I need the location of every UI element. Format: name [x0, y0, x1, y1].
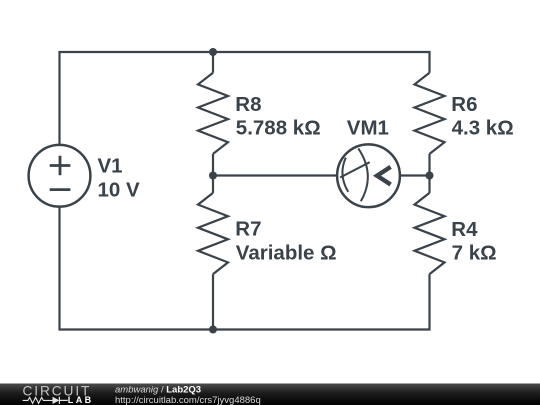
wire: R6 bottom lead through node C to R4 top lead — [428, 154, 430, 193]
wire: R8 bottom lead through node B to R7 top lead — [212, 154, 214, 193]
wire: R7 bottom lead to bottom rail — [212, 274, 214, 329]
CircuitLab logo: resistor squiggle — [23, 397, 53, 403]
resistor R4 — [415, 193, 445, 274]
wire: V1 positive terminal up to top rail across to R6 top — [60, 52, 430, 145]
svg-text:LAB: LAB — [68, 395, 94, 405]
svg-text:V1: V1 — [98, 155, 123, 178]
svg-text:R4: R4 — [451, 218, 478, 241]
svg-text:10 V: 10 V — [98, 179, 140, 202]
resistor R7 — [198, 193, 228, 274]
svg-text:R7: R7 — [235, 218, 261, 241]
svg-text:Variable Ω: Variable Ω — [236, 241, 337, 264]
node C: R6/R4/VM1 junction — [426, 172, 434, 180]
node B: R8/R7/VM1 junction — [209, 172, 217, 180]
svg-text:4.3 kΩ: 4.3 kΩ — [452, 117, 514, 140]
svg-text:7 kΩ: 7 kΩ — [452, 241, 497, 264]
voltmeter VM1 — [337, 144, 400, 207]
svg-text:5.788 kΩ: 5.788 kΩ — [236, 117, 321, 140]
CircuitLab logo: diode symbol — [53, 397, 60, 404]
svg-text:R6: R6 — [451, 93, 477, 116]
svg-text:R8: R8 — [235, 93, 261, 116]
node: bottom rail / R7 junction — [209, 326, 217, 334]
voltage source V1 — [29, 145, 91, 207]
wire: node B to VM1 left terminal — [213, 174, 337, 176]
svg-text:VM1: VM1 — [347, 116, 389, 139]
wire: VM1 right terminal to node C — [400, 174, 430, 176]
svg-text:http://circuitlab.com/crs7jyvg: http://circuitlab.com/crs7jyvg4886q — [115, 395, 261, 405]
svg-text:ambwanig / Lab2Q3: ambwanig / Lab2Q3 — [115, 384, 201, 395]
footer bar — [0, 384, 540, 405]
wire: V1 negative terminal down to bottom rail across to R7/R4 bottoms — [60, 207, 430, 330]
node: top rail / R8 junction — [209, 48, 217, 56]
wire: R8 top lead from top-rail junction — [212, 52, 214, 73]
resistor R6 — [415, 73, 445, 154]
resistor R8 — [198, 73, 228, 154]
